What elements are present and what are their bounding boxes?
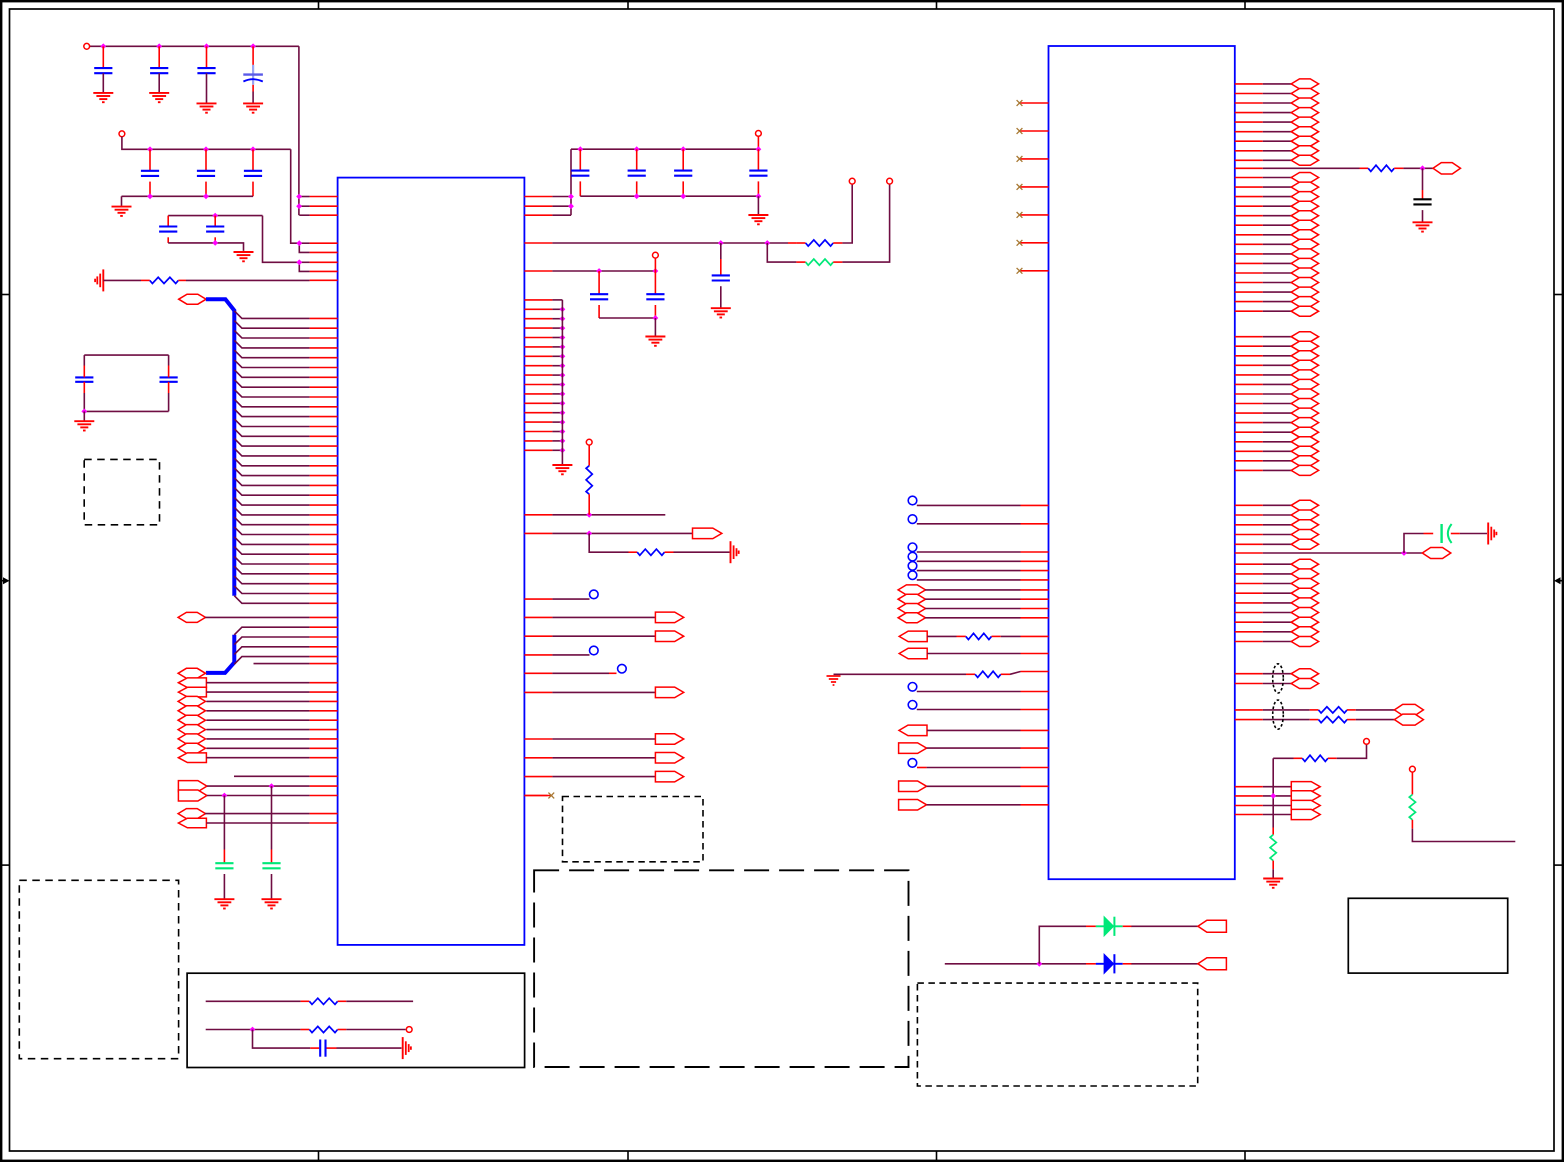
wire — [83, 411, 85, 421]
connector — [1291, 192, 1318, 202]
connector — [899, 781, 927, 792]
wire — [1263, 504, 1292, 506]
wire — [1123, 963, 1132, 965]
junction — [1420, 165, 1426, 171]
junction — [250, 146, 256, 152]
pin — [524, 757, 552, 759]
wire — [1263, 291, 1292, 293]
pin — [524, 299, 552, 301]
ground — [552, 465, 572, 474]
wire (bus fan) — [234, 458, 309, 466]
wire — [552, 532, 692, 534]
pin — [1235, 431, 1263, 433]
pin — [1021, 691, 1049, 693]
node (open terminal) — [590, 646, 599, 655]
wire — [1263, 336, 1292, 338]
wire — [1263, 355, 1292, 357]
junction — [653, 315, 659, 321]
wire — [1424, 533, 1434, 535]
pin — [524, 795, 552, 797]
wire — [1263, 205, 1292, 207]
pin — [524, 318, 552, 320]
wire — [149, 149, 151, 171]
pin — [524, 374, 552, 376]
wire — [1422, 168, 1424, 190]
wire — [206, 729, 309, 731]
connector — [178, 678, 206, 688]
pin — [524, 270, 552, 272]
wire — [1263, 93, 1292, 95]
junction — [596, 268, 602, 274]
pin — [1235, 224, 1263, 226]
ground — [112, 207, 132, 216]
junction — [212, 213, 218, 219]
wire — [757, 196, 759, 214]
pin — [310, 602, 338, 604]
pin — [1235, 364, 1263, 366]
resistor R2 — [806, 240, 834, 246]
capacitor C11 — [215, 863, 233, 868]
capacitor C21 (polarized) — [1442, 524, 1452, 543]
wire — [1412, 829, 1515, 842]
wire VCC drop — [298, 46, 300, 196]
pin — [1235, 460, 1263, 462]
wire (bus fan) — [234, 566, 309, 574]
capacitor C19 — [320, 1040, 325, 1057]
wire — [552, 196, 571, 198]
connector — [1291, 679, 1318, 689]
pin — [524, 532, 552, 534]
resistor R4 — [586, 466, 592, 495]
pin — [1021, 671, 1049, 673]
connector — [1291, 598, 1318, 608]
connector — [693, 528, 722, 539]
pin — [524, 449, 552, 451]
connector — [899, 743, 927, 754]
wire (bus fan) — [234, 556, 309, 564]
resistor R11 — [1319, 707, 1348, 713]
wire (bus fan) — [234, 576, 309, 584]
wire — [234, 775, 310, 777]
pin — [1235, 602, 1263, 604]
wire — [1263, 140, 1292, 142]
dashed box (module outline) — [534, 870, 908, 1067]
pin — [1235, 383, 1263, 385]
resistor R12 — [1319, 717, 1348, 723]
wire — [1263, 383, 1292, 385]
pin — [1235, 253, 1263, 255]
connector — [1291, 437, 1318, 447]
crystal capacitor — [160, 366, 178, 394]
wire — [254, 663, 310, 665]
pin — [310, 719, 338, 721]
wire — [1263, 393, 1292, 395]
wire — [552, 214, 571, 216]
connector — [178, 668, 205, 678]
wire rail — [122, 195, 254, 197]
connector — [899, 631, 927, 642]
ground (chassis) — [1488, 523, 1496, 545]
connector — [898, 594, 925, 604]
ground — [748, 215, 768, 224]
wire — [833, 261, 842, 263]
pin — [1235, 403, 1263, 405]
connector — [1291, 146, 1318, 156]
wire — [552, 374, 562, 376]
junction — [577, 146, 583, 152]
wire — [796, 261, 805, 263]
pin — [310, 475, 338, 477]
crystal capacitor — [75, 366, 93, 394]
connector — [178, 809, 205, 819]
wire — [1263, 412, 1292, 414]
connector — [1291, 379, 1318, 389]
connector — [1291, 791, 1320, 801]
pin — [1235, 393, 1263, 395]
wire — [1263, 673, 1292, 675]
pin — [310, 445, 338, 447]
junction — [718, 240, 724, 246]
wire — [552, 412, 562, 414]
wire — [1263, 552, 1422, 554]
wire — [654, 318, 656, 336]
pin — [310, 455, 338, 457]
node (open terminal) — [908, 683, 917, 692]
wire — [720, 286, 722, 308]
connector — [1394, 714, 1423, 725]
pin — [310, 251, 338, 253]
junction — [560, 391, 566, 397]
pin — [524, 616, 552, 618]
pin — [524, 196, 552, 198]
wire rail drop — [263, 216, 300, 263]
pin — [310, 636, 338, 638]
pin — [524, 346, 552, 348]
wire (bus fan) — [234, 468, 309, 476]
wire — [552, 402, 562, 404]
ground — [1263, 879, 1283, 888]
wire — [1272, 828, 1274, 835]
wire — [1263, 121, 1292, 123]
wire — [186, 279, 310, 281]
pin — [524, 598, 552, 600]
wire — [271, 850, 273, 864]
connector — [178, 612, 205, 622]
pin — [1235, 641, 1263, 643]
wire — [207, 795, 310, 797]
connector — [1291, 351, 1318, 361]
wire — [720, 259, 722, 275]
connector — [1291, 800, 1320, 810]
connector — [1291, 173, 1318, 183]
connector — [1291, 268, 1318, 278]
connector — [898, 604, 925, 614]
wire — [552, 205, 571, 207]
wire — [1263, 631, 1292, 633]
wire — [1086, 925, 1096, 927]
junction — [680, 146, 686, 152]
pin — [1235, 167, 1263, 169]
wire — [1263, 112, 1292, 114]
junction — [296, 203, 302, 209]
wire — [1263, 563, 1292, 565]
junction — [634, 146, 640, 152]
pin — [1021, 729, 1049, 731]
junction — [100, 43, 106, 49]
wire — [1272, 861, 1274, 870]
connector — [1291, 446, 1318, 456]
wire (bus fan) — [234, 340, 309, 348]
node (open terminal) — [618, 664, 627, 673]
pin — [524, 421, 552, 423]
connector — [1291, 201, 1318, 211]
pin — [310, 386, 338, 388]
wire — [205, 182, 207, 197]
pin — [1235, 631, 1263, 633]
wire (bus fan) — [234, 547, 309, 555]
resistor R15 — [1409, 795, 1415, 820]
wire — [1131, 925, 1198, 927]
pin — [524, 431, 552, 433]
pin — [310, 270, 338, 272]
wire — [1001, 673, 1010, 675]
wire — [206, 1029, 301, 1031]
pin — [1021, 804, 1049, 806]
wire (bus fan) — [234, 360, 309, 368]
wire — [1263, 243, 1292, 245]
wire — [927, 653, 1020, 655]
connector — [1291, 211, 1318, 221]
wire — [1263, 573, 1292, 575]
connector — [1291, 418, 1318, 428]
pin — [1235, 112, 1263, 114]
node (open terminal) — [1410, 766, 1416, 772]
wire — [682, 149, 684, 170]
wire — [957, 635, 966, 637]
connector — [1291, 278, 1318, 288]
capacitor C1 — [94, 68, 112, 73]
wire — [1263, 814, 1292, 816]
wire — [757, 181, 759, 196]
capacitor C17 — [590, 294, 608, 299]
junction — [560, 447, 566, 453]
wire (bus fan) — [234, 311, 309, 319]
wire — [552, 440, 562, 442]
bus entry connector — [0, 0, 1, 1]
wire — [788, 242, 796, 244]
pin — [1020, 130, 1049, 132]
wire — [1263, 683, 1292, 685]
ground — [243, 103, 263, 112]
wire — [552, 776, 655, 778]
wire (bus fan) — [234, 537, 309, 545]
no-connect X — [1017, 268, 1023, 274]
wire — [167, 216, 169, 227]
wire — [102, 73, 104, 93]
pin — [310, 367, 338, 369]
node (open terminal) — [406, 1027, 412, 1033]
pin — [1235, 422, 1263, 424]
junction — [560, 372, 566, 378]
pin — [1235, 150, 1263, 152]
connector — [1291, 79, 1318, 89]
pin — [524, 654, 552, 656]
wire — [207, 785, 310, 787]
ground — [214, 899, 234, 908]
pin — [1021, 785, 1049, 787]
wire — [1263, 234, 1292, 236]
capacitor C15 — [749, 171, 767, 176]
junction — [560, 419, 566, 425]
junction — [568, 194, 574, 200]
dashed box — [563, 797, 704, 862]
capacitor C20 — [1413, 199, 1431, 204]
pin — [310, 261, 338, 263]
connector — [1291, 809, 1320, 819]
ground — [149, 93, 169, 102]
wire — [158, 73, 160, 93]
border center arrow right — [1554, 577, 1563, 584]
wire (bus fan) — [234, 517, 309, 525]
wire — [1263, 543, 1292, 545]
connector — [1291, 539, 1318, 549]
junction — [560, 382, 566, 388]
wire VCC rail — [90, 45, 299, 47]
wire — [158, 46, 160, 68]
pin — [310, 406, 338, 408]
wire — [720, 243, 722, 259]
wire — [588, 494, 590, 515]
pin — [1235, 552, 1263, 554]
connector — [1291, 637, 1318, 647]
wire — [552, 654, 589, 656]
junction — [586, 531, 592, 537]
pin — [1021, 635, 1049, 637]
wire — [552, 270, 655, 272]
wire — [917, 560, 1021, 562]
wire — [917, 570, 1021, 572]
wire — [1263, 431, 1292, 433]
pin — [1235, 514, 1263, 516]
wire rail — [122, 137, 291, 150]
capacitor C16 — [712, 275, 730, 280]
wire — [552, 384, 562, 386]
wire — [1272, 869, 1274, 878]
wire (bus fan) — [234, 627, 309, 635]
node (open terminal) — [1364, 739, 1370, 745]
pin — [1020, 214, 1049, 216]
pin — [310, 553, 338, 555]
resistor R7 — [309, 1026, 337, 1032]
wire — [1263, 159, 1292, 161]
pin — [1021, 560, 1049, 562]
wire — [141, 279, 150, 281]
wire — [842, 184, 852, 243]
connector (bus port) — [179, 294, 206, 304]
connector — [655, 687, 683, 698]
wire — [552, 672, 609, 674]
connector — [178, 818, 206, 828]
pin — [1235, 673, 1263, 675]
wire — [206, 738, 309, 740]
wire — [214, 237, 216, 243]
diode D1 — [1096, 954, 1123, 973]
wire — [552, 431, 562, 433]
wire — [252, 149, 254, 171]
junction — [680, 193, 686, 199]
node (open terminal) — [887, 178, 893, 184]
connector — [1291, 408, 1318, 418]
pin — [1235, 374, 1263, 376]
pin — [310, 626, 338, 628]
junction — [560, 344, 566, 350]
wire — [205, 616, 309, 618]
junction — [250, 1027, 256, 1033]
ground — [197, 103, 217, 112]
connector — [1291, 510, 1318, 520]
wire (bus fan) — [234, 488, 309, 496]
wire — [598, 271, 600, 294]
wire (bus fan) — [234, 596, 309, 604]
pin — [310, 534, 338, 536]
junction — [560, 400, 566, 406]
connector — [1291, 465, 1318, 475]
pin — [310, 242, 338, 244]
pin — [1235, 196, 1263, 198]
wire — [206, 822, 309, 824]
pin — [310, 729, 338, 731]
wire — [927, 747, 1021, 749]
wire — [796, 242, 805, 244]
connector — [1291, 456, 1318, 466]
wire — [1360, 167, 1369, 169]
wire — [1263, 310, 1292, 312]
wire — [552, 242, 788, 244]
connector — [899, 725, 927, 736]
no-connect X — [1017, 240, 1023, 246]
node (open terminal) — [908, 571, 917, 580]
wire — [327, 1047, 337, 1049]
pin — [1235, 412, 1263, 414]
wire — [1263, 524, 1292, 526]
connector — [1433, 163, 1461, 174]
pin — [310, 616, 338, 618]
junction — [653, 268, 659, 274]
wire — [927, 729, 1021, 731]
connector — [1291, 249, 1318, 259]
node (open terminal) — [908, 701, 917, 710]
pin — [1021, 767, 1049, 769]
wire — [1263, 422, 1292, 424]
wire — [1263, 602, 1292, 604]
connector — [1291, 287, 1318, 297]
wire — [1273, 757, 1293, 759]
pin — [1235, 469, 1263, 471]
pin — [310, 435, 338, 437]
pin — [310, 710, 338, 712]
junction — [560, 438, 566, 444]
junction — [81, 409, 87, 415]
wire — [1263, 403, 1292, 405]
wire (bus fan) — [234, 330, 309, 338]
resistor R1 — [150, 277, 179, 283]
connector — [178, 753, 206, 763]
connector — [1291, 370, 1318, 380]
wire — [252, 182, 254, 197]
wire — [927, 635, 956, 637]
wire — [1422, 190, 1424, 199]
junction — [1401, 550, 1407, 556]
